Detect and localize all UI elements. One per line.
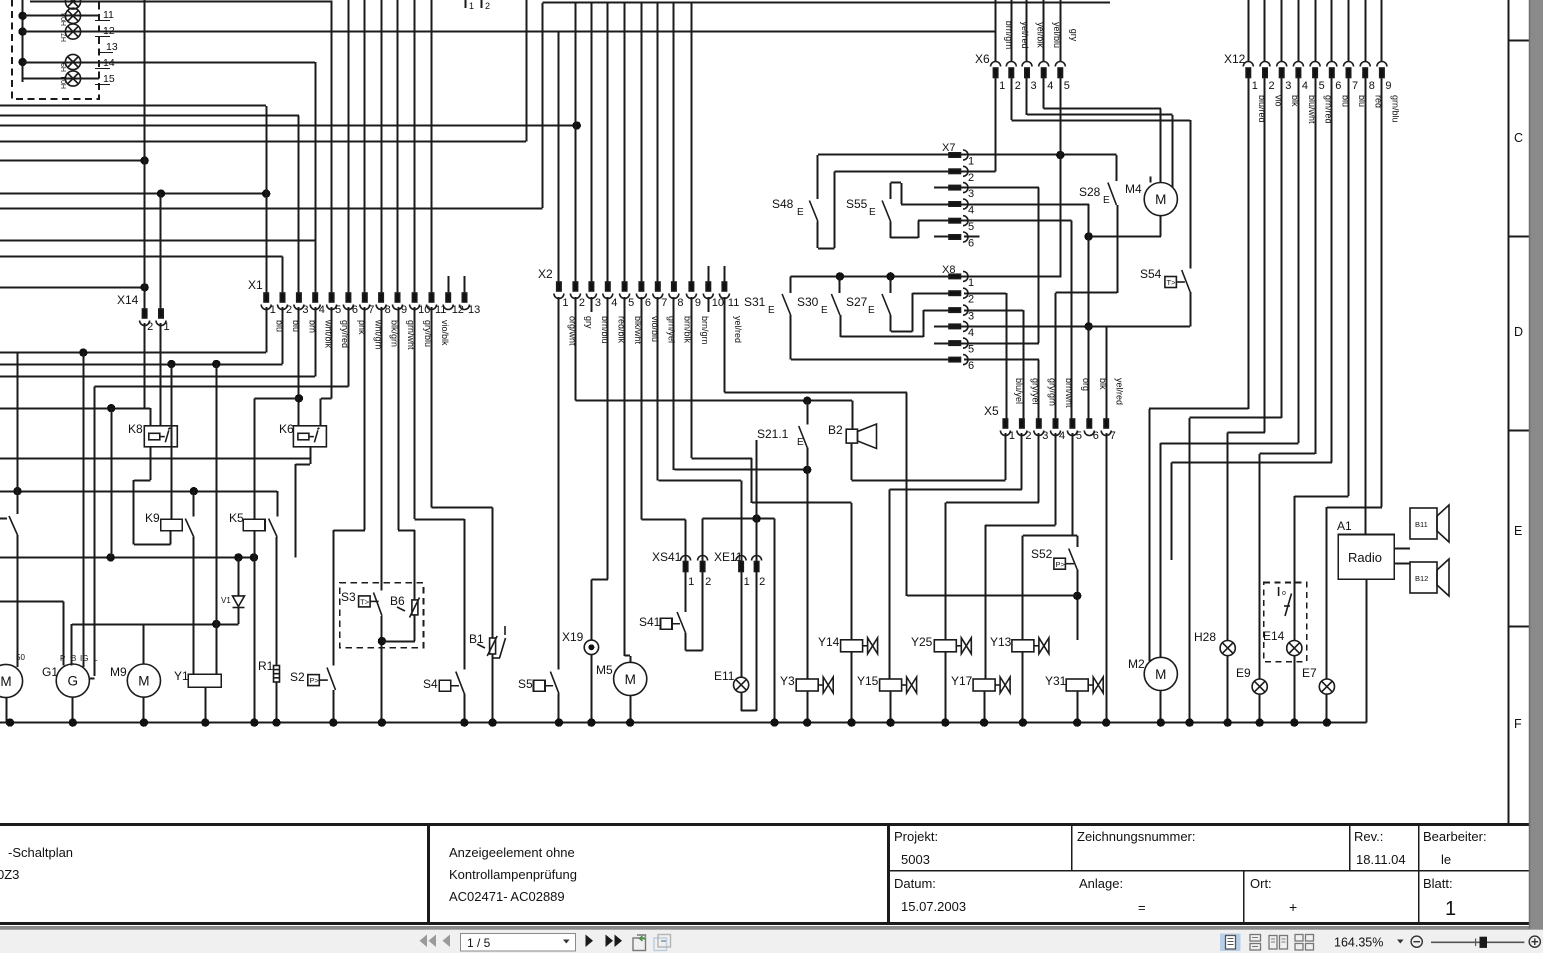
svg-text:Zeichnungsnummer:: Zeichnungsnummer: [1077, 829, 1196, 844]
zone divider B-C [1509, 40, 1530, 42]
wire X2 pin 6 upper [641, 3, 643, 283]
svg-text:Y31: Y31 [1045, 674, 1067, 688]
svg-text:E14: E14 [1263, 629, 1285, 643]
lamp H04 [65, 71, 80, 86]
wire M9 to rail [143, 697, 145, 722]
svg-text:B11: B11 [1415, 520, 1428, 529]
node rail junction [378, 718, 386, 726]
svg-text:brn/wht: brn/wht [1064, 378, 1074, 408]
wire bus X1 pin 2 net [0, 364, 283, 366]
wire X6 pin1 lower [995, 78, 997, 172]
svg-text:V1: V1 [221, 596, 231, 605]
connector X1 pin 11 [427, 293, 437, 310]
wire X2 pin2 upper [575, 3, 577, 283]
wire X1 pin 4 lower [315, 307, 317, 376]
wire Y1 bottom [205, 687, 207, 722]
wire G1 B bus [72, 624, 239, 626]
toolbar background [0, 929, 1543, 953]
wire X2 pin4 lower to X19 [607, 297, 609, 580]
wire Y15 to rail [890, 691, 892, 723]
svg-text:2: 2 [968, 172, 974, 184]
title block col zeichnung [1071, 824, 1073, 871]
speaker B11 [1410, 505, 1449, 542]
svg-text:1: 1 [562, 297, 568, 309]
svg-text:1: 1 [469, 1, 474, 11]
svg-text:K9: K9 [145, 511, 160, 525]
lamp E11 [734, 677, 749, 692]
wire Y17 to rail [984, 691, 986, 723]
svg-text:yel/red: yel/red [1115, 378, 1125, 405]
svg-text:T>: T> [360, 598, 370, 607]
title block divider 2 [887, 824, 890, 924]
svg-text:Rev.:: Rev.: [1354, 829, 1383, 844]
svg-text:1 / 5: 1 / 5 [467, 936, 491, 950]
svg-text:le: le [1441, 852, 1451, 867]
svg-text:2: 2 [1015, 80, 1021, 92]
wire S4 to rail [464, 694, 466, 723]
switch S5 blade [550, 672, 559, 694]
toolbar page input [461, 934, 576, 952]
wire K5 coil to K6 net [255, 398, 299, 400]
wire M4 bottom [1160, 216, 1162, 237]
connector X1 pin 7 [360, 293, 370, 310]
node Y1 branch [212, 360, 220, 368]
wire X2 pin7 lower [657, 297, 659, 480]
svg-text:E: E [1514, 524, 1522, 538]
node X8 row4 junction [1085, 322, 1093, 330]
wire bus to X1 pin 1 [0, 105, 266, 107]
svg-text:E: E [821, 305, 828, 316]
wire X1 pin 6 lower [348, 307, 350, 387]
wire S28 bottom [1117, 205, 1119, 293]
svg-text:M: M [138, 674, 149, 689]
wire X2 pin 9 upper [691, 3, 693, 283]
wire X1 pin 11 lower [431, 307, 433, 508]
wire X12 pin 3 lower [1281, 78, 1283, 418]
wire K5 coil bottom [254, 531, 256, 723]
wire B1 top jog [432, 507, 493, 509]
svg-text:5: 5 [628, 297, 634, 309]
switch E14 internal [1279, 587, 1292, 616]
node lamp row 11 [18, 12, 26, 20]
connector X7 pin 6 [949, 232, 968, 242]
wire S52 to Y31 [1077, 570, 1079, 640]
wire K9 contact to Y1 [193, 537, 195, 674]
svg-text:5: 5 [1319, 80, 1325, 92]
svg-text:X5: X5 [984, 404, 999, 418]
wire X6 pin3 lower [1026, 78, 1028, 116]
wire bus y241 [0, 240, 315, 242]
svg-text:S55: S55 [846, 197, 868, 211]
switch S52 actuator [1054, 558, 1074, 569]
wire S41 U-link [685, 633, 687, 651]
switch S27 stub [890, 276, 892, 292]
svg-text:E11: E11 [714, 669, 735, 683]
connector X5 pin 2 [1017, 419, 1027, 436]
node rail junction [272, 718, 280, 726]
toolbar two page continuous icon [1295, 935, 1314, 951]
sensor B1 [477, 626, 506, 658]
wire X7 row4 [901, 204, 1089, 206]
dashed enclosure S3 B6 [340, 583, 424, 648]
contact K9 wire top [193, 491, 195, 516]
wire X12 pin 3 upper [1281, 0, 1283, 62]
wire B6 top jog [398, 530, 415, 532]
switch S55 top bridge [891, 182, 902, 184]
connector X2 pin 5 [620, 282, 630, 299]
node rail junction [847, 718, 855, 726]
node rail junction [587, 718, 595, 726]
switch S2 actuator [308, 675, 328, 686]
wire S5 to rail [558, 694, 560, 723]
wire lamp row 15 [23, 78, 99, 80]
wire S2 to rail [333, 690, 335, 723]
svg-text:7: 7 [1352, 80, 1358, 92]
svg-text:X1: X1 [248, 278, 263, 292]
svg-text:1: 1 [1445, 898, 1456, 920]
wire X1 pin 10 upper [414, 0, 416, 294]
wire G1 L [94, 387, 96, 676]
svg-text:3: 3 [1285, 80, 1291, 92]
svg-text:8: 8 [385, 304, 391, 316]
wire X2 pin 7 upper [657, 3, 659, 283]
wire Y14 riser [851, 503, 853, 640]
wire S31 bottom to X8 row6 [790, 315, 792, 360]
wire blk drop to X5 pin6 [1088, 326, 1090, 419]
svg-text:K5: K5 [229, 511, 244, 525]
svg-text:S41: S41 [639, 615, 661, 629]
node rail junction [250, 718, 258, 726]
svg-text:4: 4 [611, 297, 617, 309]
wire lamp common vertical [22, 0, 24, 82]
svg-text:D: D [1514, 325, 1523, 339]
svg-text:S21.1: S21.1 [757, 427, 789, 441]
switch S4 link [451, 685, 459, 687]
wire pin9 to E7 [1327, 507, 1382, 509]
switch S31 stub [790, 276, 792, 292]
title block row divider [888, 870, 1529, 872]
node X6 pin5 crossing [1056, 151, 1064, 159]
node S27 branch [886, 272, 894, 280]
connector X5 pin 3 [1034, 419, 1044, 436]
svg-text:3: 3 [1031, 80, 1037, 92]
thermistor B6 [397, 598, 420, 618]
svg-text:E9: E9 [1236, 666, 1251, 680]
svg-text:gry: gry [584, 316, 594, 329]
svg-text:S27: S27 [846, 295, 868, 309]
connector X12 pin 4 [1293, 62, 1303, 78]
wire staircase pin1 to M2 aux [1149, 408, 1248, 410]
svg-text:11: 11 [103, 9, 114, 21]
svg-text:5: 5 [968, 344, 974, 356]
valve Y13 [1012, 638, 1049, 654]
connector X1 pin 10 [410, 293, 420, 310]
title block col ort [1243, 871, 1245, 924]
wire X8 row2 to X5 pin1 [964, 293, 1006, 295]
dashed enclosure lamp panel [12, 0, 99, 99]
connector X1 pin 5 [327, 293, 337, 310]
wire XS41 pin1 upper [685, 519, 687, 561]
svg-text:9: 9 [695, 297, 701, 309]
connector X7 pin 3 [949, 183, 968, 193]
wire X2 pin10 lower stub [708, 297, 710, 312]
wire S21.1 to Y3 [807, 448, 809, 680]
wire X2 pin11 upper [724, 266, 726, 283]
motor M2 [1144, 657, 1177, 690]
wire X1 pin 2 upper [282, 257, 284, 295]
toolbar next page button [586, 935, 594, 948]
switch S41 link [672, 623, 680, 625]
svg-text:-Schaltplan: -Schaltplan [8, 845, 73, 860]
svg-text:2: 2 [286, 304, 292, 316]
wire X8 row6 to X5 pin3 [964, 359, 1039, 361]
wire X12 pin 2 upper [1264, 0, 1266, 62]
svg-text:0Z3: 0Z3 [0, 867, 19, 882]
wire bus y469 [674, 469, 807, 471]
connector X2 pin 11 [719, 282, 729, 299]
valve Y1 coil [188, 674, 221, 687]
svg-text:Anlage:: Anlage: [1079, 876, 1123, 891]
wire lamp row H2 [30, 1, 333, 3]
wire X7 row2 [835, 171, 996, 173]
wire X1 pin 12 stub [448, 276, 450, 294]
toolbar first page button [420, 935, 437, 948]
svg-text:M2: M2 [1128, 657, 1145, 671]
svg-text:M: M [625, 672, 636, 687]
svg-text:164.35%: 164.35% [1334, 936, 1383, 950]
wire speaker B11 link [1394, 548, 1410, 550]
wire X5 pin7 lower to rail [1106, 433, 1108, 723]
wire X1 pin 9 lower [398, 307, 400, 530]
wire X1 pin 10 lower [414, 307, 416, 519]
svg-text:P: P [60, 654, 65, 663]
connector X2 pin 6 [636, 282, 646, 299]
svg-text:brn/grn: brn/grn [700, 316, 710, 345]
svg-text:2: 2 [1269, 80, 1275, 92]
svg-text:K8: K8 [128, 422, 143, 436]
wire S52 net run [907, 595, 1077, 597]
node rail junction [1256, 718, 1264, 726]
svg-text:Y14: Y14 [818, 635, 840, 649]
svg-text:X6: X6 [975, 52, 990, 66]
svg-text:M4: M4 [1125, 182, 1142, 196]
wire X2 pin2 lower [575, 297, 577, 401]
connector X7 pin 4 [949, 199, 968, 209]
valve Y25 [934, 638, 971, 654]
svg-text:50: 50 [16, 653, 25, 662]
svg-text:1: 1 [968, 277, 974, 289]
svg-text:4: 4 [1047, 80, 1053, 92]
lamp H7 [65, 24, 80, 39]
switch S28 blade [1108, 183, 1117, 206]
connector X12 pin 5 [1310, 62, 1320, 78]
wire X1 pin 4 upper [315, 62, 317, 294]
wire X12 pin 8 upper [1365, 0, 1367, 62]
svg-text:12: 12 [452, 304, 464, 316]
wire K6 bottom jog [296, 464, 311, 466]
svg-text:gry: gry [1069, 29, 1079, 42]
connector X2 pin 4 [603, 282, 613, 299]
connector X5 pin 5 [1067, 419, 1077, 436]
wire M9 feed [143, 624, 145, 664]
svg-text:M9: M9 [110, 665, 127, 679]
svg-text:M: M [1155, 192, 1166, 207]
wire E14 to rail [1294, 656, 1296, 723]
node bus 557 branch a [107, 553, 115, 561]
connector X14 pin 2 [140, 309, 150, 326]
switch left edge wire [17, 353, 19, 514]
connector X2 pin 9 [686, 282, 696, 299]
connector X6 pin 5 [1055, 62, 1065, 78]
wire X14 pin 1 drop from bus [160, 194, 162, 310]
connector X6 pin 4 [1039, 62, 1049, 78]
zone divider E-F [1509, 626, 1530, 628]
svg-text:S31: S31 [744, 295, 766, 309]
svg-text:C: C [1514, 131, 1523, 145]
wire staircase pin2 to H28 [1228, 432, 1265, 434]
switch S2 wire top [333, 530, 335, 666]
svg-text:2: 2 [705, 576, 711, 588]
wire X12 pin 5 lower [1315, 78, 1317, 454]
node rail junction [140, 718, 148, 726]
switch S52 blade [1069, 549, 1078, 570]
svg-text:M: M [0, 674, 11, 689]
svg-text:6: 6 [968, 360, 974, 372]
wire stub to X14 pin 2 [0, 287, 145, 289]
wire lamp row 11 [23, 15, 99, 17]
svg-text:10: 10 [418, 304, 430, 316]
node rail junction [626, 718, 634, 726]
title block col rev [1349, 824, 1351, 871]
toolbar zoom slider [1431, 941, 1524, 943]
wire X1 pin 3 upper [298, 115, 300, 294]
wire G1 B [71, 624, 73, 665]
wire X2 pin1 upper [558, 32, 560, 283]
connector X6 pin 2 [1006, 62, 1016, 78]
svg-text:E: E [1103, 195, 1110, 206]
relay K9 coil [161, 519, 183, 531]
wire main bus y458 [0, 458, 310, 460]
node S21.1 top [803, 397, 811, 405]
connector X2 pin 1 [554, 282, 564, 299]
contact K5 wire top [277, 491, 279, 516]
switch S2 blade [327, 668, 336, 691]
connector X2 pin 8 [669, 282, 679, 299]
wire X8 row5 [934, 343, 1039, 345]
relay K5 coil [243, 519, 265, 531]
switch S54 stub [1190, 120, 1192, 269]
wire X2 pin 8 upper [673, 3, 675, 283]
switch S30 stub [839, 276, 841, 292]
wire X12 pin 8 lower [1365, 78, 1367, 535]
wire X8 row1 [791, 276, 1062, 278]
svg-text:15.07.2003: 15.07.2003 [901, 899, 966, 914]
node rail junction [1157, 718, 1165, 726]
connector X12 pin 9 [1377, 62, 1387, 78]
lamp H2 [65, 0, 80, 9]
node K9 coil branch [167, 360, 175, 368]
wire X1 pin 5 jog to K6 [321, 398, 332, 400]
node rail junction [1224, 718, 1232, 726]
node X1 pin 3 and K5 branch [295, 394, 303, 402]
toolbar zoom dropdown caret [1397, 940, 1404, 944]
wire junction to rail [774, 519, 776, 723]
svg-text:E7: E7 [1302, 666, 1317, 680]
connector X8 pin 5 [949, 338, 968, 348]
switch S5 box [534, 680, 546, 691]
wire X2 pin11 drop [906, 393, 908, 596]
wire bus to X14 pin 1 and X1 pin 1 [0, 193, 266, 195]
wire bus y208 [0, 208, 542, 210]
wire H28 to rail [1227, 656, 1229, 723]
wire jog to Y14 riser [752, 502, 852, 504]
svg-text:S4: S4 [423, 677, 438, 691]
wire X1 pin 2 lower [282, 307, 284, 364]
title block col bearbeiter [1418, 824, 1420, 924]
svg-text:vio/blk: vio/blk [440, 320, 450, 346]
svg-text:3: 3 [968, 311, 974, 323]
svg-text:1: 1 [270, 304, 276, 316]
svg-text:pnk: pnk [357, 320, 367, 335]
switch S4 blade [456, 672, 465, 694]
node K8 bus branch [107, 404, 115, 412]
svg-text:E: E [868, 305, 875, 316]
wire Y14 to rail [851, 652, 853, 723]
svg-text:13: 13 [106, 41, 118, 53]
wire X12 pin 4 lower [1298, 78, 1300, 444]
wire bus to X1 pin 3 [0, 115, 299, 117]
wire bus y142 [0, 141, 526, 143]
svg-text:4: 4 [1302, 80, 1308, 92]
wire X6 pin 2 upper [1011, 0, 1013, 62]
wire bus X1 pin 6 net to G1 L [95, 386, 349, 388]
wire X1 pin 8 upper [381, 0, 383, 294]
valve Y15 [880, 677, 917, 693]
wire X1 pin 3 lower to K6 [298, 307, 300, 426]
wire X2 pin 3 upper [591, 3, 593, 283]
motor M4 [1144, 183, 1177, 216]
wire Y1 right feed [216, 364, 218, 674]
svg-text:gry/yel: gry/yel [1030, 378, 1040, 405]
wire E9 to rail [1259, 694, 1261, 722]
wire G1 to rail [72, 697, 74, 722]
diode V1 [233, 596, 245, 608]
svg-text:Kontrollampenprüfung: Kontrollampenprüfung [449, 867, 577, 882]
connector X7 pin 5 [949, 216, 968, 226]
wire X7 row5 drop [1071, 221, 1073, 419]
wire B2 top [852, 401, 854, 430]
connector X1 pin 1 [261, 293, 271, 310]
svg-text:6: 6 [968, 238, 974, 250]
svg-text:6: 6 [352, 304, 358, 316]
node G1 IG branch [79, 348, 87, 356]
wire S27 bottom to X8 row2 [890, 315, 892, 331]
svg-text:=: = [1138, 900, 1146, 915]
wire X2 pin9 lower [691, 297, 693, 458]
svg-text:yel/red: yel/red [733, 316, 743, 343]
resistor R1 [274, 666, 280, 683]
wire X6 pin5 lower [1060, 78, 1062, 277]
wire X12 pin 2 lower [1264, 78, 1266, 433]
svg-text:8: 8 [677, 297, 683, 309]
wire M5 feed jog [625, 655, 631, 657]
wire M4 aux feed [1172, 115, 1174, 188]
svg-text:Y25: Y25 [911, 635, 933, 649]
wire X2 pin11 run [724, 392, 906, 394]
svg-text:9: 9 [1385, 80, 1391, 92]
wire staircase pin5 to E9 [1260, 453, 1315, 455]
wire S55 bottom U [890, 222, 892, 238]
